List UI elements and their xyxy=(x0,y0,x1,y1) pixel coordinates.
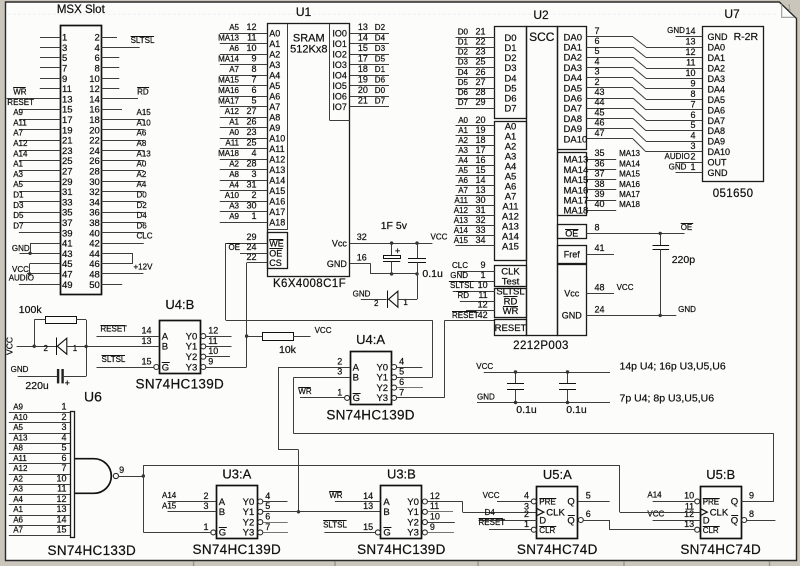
svg-text:22: 22 xyxy=(475,37,485,47)
svg-text:7: 7 xyxy=(61,463,66,473)
wire xyxy=(17,346,57,348)
faint blue rule xyxy=(8,13,778,15)
svg-text:D0: D0 xyxy=(375,86,386,95)
svg-text:VCC: VCC xyxy=(476,362,493,371)
junction xyxy=(245,334,248,337)
svg-text:IO3: IO3 xyxy=(332,60,347,70)
svg-text:MA18: MA18 xyxy=(218,149,239,158)
junction xyxy=(390,272,393,275)
svg-text:28: 28 xyxy=(246,159,256,169)
U3:B Y0 wire to U5:A CLK xyxy=(427,501,462,503)
svg-text:1: 1 xyxy=(251,211,256,221)
svg-text:A14: A14 xyxy=(13,149,28,158)
svg-text:8: 8 xyxy=(251,64,256,74)
MSX pin 15 wire (RESET) xyxy=(19,109,60,111)
MSX pin 12 wire xyxy=(101,88,119,90)
svg-text:GND: GND xyxy=(562,311,583,321)
U2 pin 6 wire (DA1) to U7 xyxy=(586,47,633,49)
svg-text:VCC: VCC xyxy=(647,510,664,519)
svg-text:13: 13 xyxy=(141,336,151,346)
MSX Slot connector J1 body xyxy=(61,26,102,295)
svg-text:Y3: Y3 xyxy=(186,362,198,373)
capacitor 0.1u at x=515.5 xyxy=(515,372,517,384)
svg-text:DA10: DA10 xyxy=(564,134,588,145)
tie wire xyxy=(132,253,134,263)
svg-text:37: 37 xyxy=(595,169,605,179)
svg-text:10: 10 xyxy=(246,43,256,53)
svg-text:+: + xyxy=(65,378,70,388)
svg-text:12: 12 xyxy=(246,22,256,32)
U4:A Y1 output bubble xyxy=(392,375,397,380)
svg-text:MA16: MA16 xyxy=(218,86,239,95)
svg-text:3: 3 xyxy=(595,67,600,77)
svg-text:12: 12 xyxy=(685,47,695,57)
svg-text:A15: A15 xyxy=(162,502,177,511)
U6 output bubble xyxy=(113,473,118,478)
svg-text:D7: D7 xyxy=(375,97,386,106)
U2 MA sub-box xyxy=(558,153,587,216)
decoder U4:B body xyxy=(160,321,201,374)
U2 pin 5 wire (DA2) to U7 xyxy=(586,57,633,59)
svg-text:OE: OE xyxy=(681,223,693,232)
svg-text:21: 21 xyxy=(358,96,368,106)
svg-text:GND: GND xyxy=(353,290,371,299)
U3:B Y3 output bubble xyxy=(422,530,427,535)
svg-text:2212P003: 2212P003 xyxy=(513,340,569,352)
MSX pin 28 wire (A0) xyxy=(101,170,143,172)
svg-text:WR: WR xyxy=(503,306,519,317)
svg-text:2: 2 xyxy=(251,190,256,200)
U1 pin 4 wire (A12) net MA18 xyxy=(220,159,267,161)
svg-text:U5:A: U5:A xyxy=(543,467,572,482)
U6 pin 11 wire net A3 xyxy=(9,494,70,496)
svg-text:46: 46 xyxy=(595,118,605,128)
MSX pin 27 wire (A1) xyxy=(19,170,60,172)
svg-text:RD: RD xyxy=(458,291,470,300)
U1 pin 2 wire (A16) net A10 xyxy=(220,201,267,203)
svg-text:+: + xyxy=(395,246,400,256)
U3:A G input bubble xyxy=(211,530,216,535)
MSX pin 32 wire (A4) xyxy=(101,191,143,193)
svg-text:2: 2 xyxy=(374,299,379,308)
svg-text:16: 16 xyxy=(475,155,485,165)
svg-text:G: G xyxy=(353,393,360,404)
svg-text:MA15: MA15 xyxy=(218,76,239,85)
svg-text:CLK: CLK xyxy=(710,507,729,518)
U2 pin 34 wire (A15) xyxy=(456,245,495,247)
svg-text:11: 11 xyxy=(430,501,439,511)
U3:B Y1 wire xyxy=(427,511,453,513)
svg-text:A7: A7 xyxy=(269,102,280,112)
svg-text:A11: A11 xyxy=(454,196,468,205)
wire xyxy=(34,320,36,346)
U7 pin 14 wire (GND) xyxy=(676,36,703,38)
decoder U3:B body xyxy=(381,486,422,539)
svg-text:A6: A6 xyxy=(229,44,239,53)
svg-text:MA15: MA15 xyxy=(619,170,640,179)
svg-text:OE: OE xyxy=(228,243,240,252)
svg-text:A5: A5 xyxy=(458,166,468,175)
MSX pin 40 wire (D6) xyxy=(101,232,143,234)
U4:B pin 15 wire (G) xyxy=(97,367,154,369)
junction xyxy=(659,314,662,317)
svg-text:A10: A10 xyxy=(269,134,285,144)
svg-text:23: 23 xyxy=(475,47,485,57)
svg-text:6: 6 xyxy=(595,36,600,46)
U2 OE sub-box xyxy=(558,225,587,239)
U5:A PRE bubble xyxy=(531,499,536,504)
VCC tie wire xyxy=(29,264,31,274)
svg-text:VCC: VCC xyxy=(4,337,14,355)
U1 pin 8 wire (A4) net A7 xyxy=(220,75,267,77)
flip-flop U5:B body xyxy=(701,487,742,539)
svg-text:RD: RD xyxy=(137,88,149,97)
svg-text:7: 7 xyxy=(265,522,270,532)
MSX pin 23 wire (A12) xyxy=(19,150,60,152)
svg-text:A3: A3 xyxy=(229,202,239,211)
svg-text:DA4: DA4 xyxy=(708,84,726,94)
svg-text:1: 1 xyxy=(524,519,529,529)
U1 pin 12 wire (A0) net A5 xyxy=(220,33,267,35)
svg-text:22: 22 xyxy=(246,252,256,262)
svg-text:A3: A3 xyxy=(13,170,23,179)
svg-text:10: 10 xyxy=(684,491,694,501)
svg-text:A16: A16 xyxy=(269,197,285,207)
svg-text:SLTSL: SLTSL xyxy=(131,36,155,45)
svg-text:11: 11 xyxy=(686,57,695,67)
svg-text:Q: Q xyxy=(731,515,738,526)
svg-text:SN74HC139D: SN74HC139D xyxy=(136,376,225,391)
U4:B Y2 wire xyxy=(206,356,230,358)
svg-text:A15: A15 xyxy=(454,236,469,245)
svg-text:32: 32 xyxy=(357,232,367,242)
svg-text:+12V: +12V xyxy=(134,263,154,272)
MSX pin 25 wire (A14) xyxy=(19,160,60,162)
U2 pin 40 wire (MA18) xyxy=(586,210,616,212)
svg-text:A18: A18 xyxy=(269,218,285,228)
svg-text:24: 24 xyxy=(246,242,256,252)
U4:B Y0 wire xyxy=(206,336,232,338)
U2 pin 7 wire (DA0) to U7 xyxy=(586,36,633,38)
svg-text:19: 19 xyxy=(358,75,368,85)
U4:A Y2 output bubble xyxy=(392,385,397,390)
U6 pin 4 wire net A13 xyxy=(9,443,70,445)
svg-text:4: 4 xyxy=(265,491,270,501)
svg-text:49: 49 xyxy=(62,280,73,291)
resistor R1 100k xyxy=(46,317,77,324)
U4:A G input bubble xyxy=(345,395,350,400)
svg-text:A13: A13 xyxy=(454,216,469,225)
U4:A Y3 wire (RESET to U2) xyxy=(397,397,445,399)
U1 pin 32 wire (Vcc) xyxy=(350,243,433,245)
U2 pin 47 wire (DA10) to U7 xyxy=(586,138,633,140)
U1 pin 11 wire (A1) net MA13 xyxy=(220,43,267,45)
svg-text:D7: D7 xyxy=(458,98,469,107)
MSX pin 4 wire (SLTSL) xyxy=(101,47,139,49)
svg-text:A15: A15 xyxy=(502,241,519,252)
svg-text:A11: A11 xyxy=(269,144,284,154)
svg-text:AUDIO: AUDIO xyxy=(665,152,690,161)
svg-text:A8: A8 xyxy=(13,444,23,453)
MSX pin 22 wire (A6) xyxy=(101,140,143,142)
svg-text:14: 14 xyxy=(56,514,66,524)
svg-text:1: 1 xyxy=(337,387,342,397)
svg-text:31: 31 xyxy=(246,180,256,190)
svg-text:5: 5 xyxy=(265,501,270,511)
U1 pin 19 wire (IO5) net D6 xyxy=(350,85,389,87)
junction xyxy=(514,370,517,373)
U2 pin 13 wire (A7) xyxy=(456,195,495,197)
svg-text:14: 14 xyxy=(358,33,368,43)
U2 pin 19 wire (A1) xyxy=(456,135,495,137)
svg-text:14: 14 xyxy=(363,491,373,501)
svg-text:A0: A0 xyxy=(458,116,468,125)
U2 pin 24 wire (GND) xyxy=(586,315,676,317)
svg-text:Y3: Y3 xyxy=(376,393,388,404)
U3:B Y3 wire xyxy=(427,532,454,534)
svg-text:A13: A13 xyxy=(13,433,28,442)
svg-text:GND: GND xyxy=(327,259,348,269)
svg-text:29: 29 xyxy=(475,97,485,107)
U3:B Y1 output bubble xyxy=(422,509,427,514)
U4:B Y3 output bubble xyxy=(201,365,206,370)
svg-text:A6: A6 xyxy=(137,129,147,138)
U5:B pin 8 wire (Qbar) xyxy=(746,520,775,522)
GND rail wire xyxy=(477,402,610,404)
U3:B G input bubble xyxy=(375,530,380,535)
svg-text:A15: A15 xyxy=(137,108,152,117)
U3:A Y1 output bubble xyxy=(258,509,263,514)
svg-text:VCC: VCC xyxy=(483,491,500,500)
U2 pin 26 wire (D4) xyxy=(456,77,495,79)
svg-text:17: 17 xyxy=(475,145,485,155)
U1 pin 28 wire (A13) net A2 xyxy=(220,169,267,171)
svg-text:20: 20 xyxy=(475,115,485,125)
svg-text:R-2R: R-2R xyxy=(734,31,759,43)
U6 pin 9 output wire xyxy=(119,476,144,478)
svg-text:A7: A7 xyxy=(13,129,23,138)
svg-text:A2: A2 xyxy=(229,160,239,169)
svg-text:220u: 220u xyxy=(25,380,49,392)
svg-text:A9: A9 xyxy=(13,108,23,117)
svg-text:0.1u: 0.1u xyxy=(422,268,443,280)
svg-text:2: 2 xyxy=(690,152,695,162)
U3:B pin 14 wire (A) xyxy=(335,501,381,503)
U7 pin 2 wire (OUT) xyxy=(676,162,703,164)
svg-text:D5: D5 xyxy=(13,211,24,220)
U4:B Y1 output bubble xyxy=(201,344,206,349)
MSX pin 49 wire (AUDIO) xyxy=(19,284,60,286)
svg-text:U3:B: U3:B xyxy=(387,466,416,481)
svg-text:WR: WR xyxy=(298,387,312,396)
svg-text:A6: A6 xyxy=(458,176,468,185)
MSX pin 6 wire xyxy=(101,57,119,59)
MSX pin 33 wire (D1) xyxy=(19,201,60,203)
MSX pin 31 wire (A5) xyxy=(19,191,60,193)
U2 pin 44 wire (DA7) to U7 xyxy=(586,108,633,110)
svg-text:A10: A10 xyxy=(137,118,152,127)
U4:A Y2 wire xyxy=(397,387,423,389)
svg-text:3: 3 xyxy=(690,141,695,151)
U2 pin 2 wire (DA5) to U7 xyxy=(586,87,633,89)
svg-text:26: 26 xyxy=(246,117,256,127)
wire WE net U1 to U4:A Y1 xyxy=(225,243,227,320)
svg-text:4: 4 xyxy=(690,131,695,141)
svg-text:A13: A13 xyxy=(269,165,285,175)
svg-text:A4: A4 xyxy=(269,71,280,81)
U2 pin 12 wire (WR) xyxy=(466,310,495,312)
svg-text:IO6: IO6 xyxy=(332,92,347,102)
U2 pin 38 wire (MA16) xyxy=(586,189,616,191)
junction xyxy=(28,252,31,255)
svg-text:5: 5 xyxy=(61,443,66,453)
svg-text:D4: D4 xyxy=(485,508,496,517)
wire U4:A A to U3 bus xyxy=(278,367,280,450)
svg-text:A11: A11 xyxy=(13,118,27,127)
svg-text:11: 11 xyxy=(247,33,256,43)
svg-text:4: 4 xyxy=(251,148,256,158)
svg-text:GND: GND xyxy=(477,393,495,402)
svg-text:12: 12 xyxy=(430,491,440,501)
svg-text:3: 3 xyxy=(61,422,66,432)
U1 pin 16 wire (GND) xyxy=(350,263,371,265)
capacitor C3 220u (polarized) xyxy=(57,369,59,383)
wire xyxy=(64,376,86,378)
diode D2 xyxy=(387,291,389,308)
svg-text:A2: A2 xyxy=(13,474,23,483)
svg-text:7: 7 xyxy=(251,75,256,85)
U2 CLK sub-box xyxy=(495,266,527,287)
svg-text:G: G xyxy=(219,528,226,539)
svg-text:19: 19 xyxy=(475,125,485,135)
svg-text:47: 47 xyxy=(595,128,605,138)
svg-text:A5: A5 xyxy=(229,23,239,32)
U4:A Y3 output bubble xyxy=(392,395,397,400)
svg-text:10k: 10k xyxy=(279,344,297,356)
svg-text:A7: A7 xyxy=(13,526,23,535)
U1 pin 26 wire (A9) net A1 xyxy=(220,127,267,129)
svg-text:U1: U1 xyxy=(296,5,312,19)
U2 Fref sub-box xyxy=(558,246,587,264)
U6 pin 15 wire net A7 xyxy=(9,535,70,537)
U5:A pin 6 wire (Qbar) to U5:B CLR xyxy=(583,520,609,522)
U1 pin 7 wire (A5) net MA15 xyxy=(220,85,267,87)
svg-text:A14: A14 xyxy=(454,226,469,235)
svg-text:10: 10 xyxy=(478,280,488,290)
svg-text:10: 10 xyxy=(56,473,66,483)
svg-text:RESET: RESET xyxy=(495,323,527,334)
MSX pin 36 wire (D2) xyxy=(101,212,143,214)
svg-text:13: 13 xyxy=(363,501,373,511)
U2 pin 37 wire (MA15) xyxy=(586,179,616,181)
svg-text:5: 5 xyxy=(586,491,591,501)
U2 pin 4 wire (DA3) to U7 xyxy=(586,67,633,69)
svg-text:2: 2 xyxy=(595,77,600,87)
MSX pin 34 wire (D0) xyxy=(101,201,143,203)
svg-text:15: 15 xyxy=(358,43,368,53)
MSX pin 9 wire xyxy=(40,78,60,80)
svg-text:SN74HC139D: SN74HC139D xyxy=(326,407,415,422)
U5:A CLR bubble xyxy=(531,527,536,532)
MSX pin 17 wire (A9) xyxy=(19,119,60,121)
svg-text:3: 3 xyxy=(337,367,342,377)
svg-text:A2: A2 xyxy=(269,50,280,60)
svg-text:SN74HC139D: SN74HC139D xyxy=(357,542,446,557)
svg-text:9: 9 xyxy=(690,78,695,88)
svg-text:D1: D1 xyxy=(13,191,24,200)
svg-text:A8: A8 xyxy=(137,139,147,148)
U2 DA sub-box xyxy=(558,27,587,150)
U1 pin 10 wire (A2) net A6 xyxy=(220,54,267,56)
U2 pin 31 wire (A12) xyxy=(456,215,495,217)
svg-text:30: 30 xyxy=(246,201,256,211)
U3:A Y3 output bubble xyxy=(258,530,263,535)
U3:A pin 3 wire (B) xyxy=(168,511,217,513)
MSX pin 44 wire xyxy=(101,253,133,255)
svg-text:16: 16 xyxy=(357,253,367,263)
svg-text:15: 15 xyxy=(141,356,151,366)
U6 pin 14 wire net A6 xyxy=(9,525,70,527)
junction xyxy=(566,370,569,373)
svg-text:48: 48 xyxy=(595,282,605,292)
U2 D sub-box xyxy=(495,27,527,119)
U3:A pin 2 wire (A) xyxy=(168,501,217,503)
svg-text:MA18: MA18 xyxy=(564,206,589,217)
U1 pin 30 wire (A17) net A3 xyxy=(220,211,267,213)
U2 pin 18 wire (A2) xyxy=(456,145,495,147)
U5:B CLK wire xyxy=(620,512,700,514)
svg-text:30: 30 xyxy=(475,195,485,205)
U4:A Y0 output bubble xyxy=(392,365,397,370)
svg-text:051650: 051650 xyxy=(713,188,754,200)
U2 pin 48 wire (Vcc) xyxy=(586,293,614,295)
MSX pin 47 wire (VCC) xyxy=(27,273,60,275)
U1 pin 17 wire (IO3) net D5 xyxy=(350,64,389,66)
capacitor C4 220p xyxy=(660,233,662,245)
svg-text:43: 43 xyxy=(595,87,605,97)
svg-text:A14: A14 xyxy=(647,491,662,500)
svg-text:RESET: RESET xyxy=(452,311,479,320)
svg-text:RESET: RESET xyxy=(479,518,506,527)
svg-text:36: 36 xyxy=(595,158,605,168)
svg-text:7p U4; 8p U3,U5,U6: 7p U4; 8p U3,U5,U6 xyxy=(620,393,715,405)
svg-text:100k: 100k xyxy=(19,304,43,316)
svg-text:1: 1 xyxy=(73,344,78,353)
wire xyxy=(398,299,417,301)
junction xyxy=(28,272,31,275)
U5:A pin 2 wire (D) xyxy=(479,520,537,522)
svg-text:U4:A: U4:A xyxy=(356,332,385,347)
svg-text:4: 4 xyxy=(524,491,529,501)
U1 WE/OE/CS sub-box xyxy=(268,233,288,269)
svg-text:VCC: VCC xyxy=(315,326,332,335)
svg-text:G: G xyxy=(162,362,169,373)
U2 pin 45 wire (DA8) to U7 xyxy=(586,118,633,120)
svg-text:D0: D0 xyxy=(458,27,469,36)
sram U1 body xyxy=(268,24,350,277)
svg-text:D6: D6 xyxy=(137,221,148,230)
svg-text:24: 24 xyxy=(595,304,605,314)
svg-text:9: 9 xyxy=(480,260,485,270)
MSX pin 39 wire (D7) xyxy=(19,232,60,234)
junction xyxy=(415,272,418,275)
svg-text:IO2: IO2 xyxy=(332,50,347,60)
U6 pin 1 wire net A9 xyxy=(9,412,70,414)
svg-text:Y3: Y3 xyxy=(407,528,419,539)
svg-text:OE: OE xyxy=(565,229,578,239)
svg-text:D5: D5 xyxy=(375,55,386,64)
MSX pin 50 wire xyxy=(101,284,122,286)
